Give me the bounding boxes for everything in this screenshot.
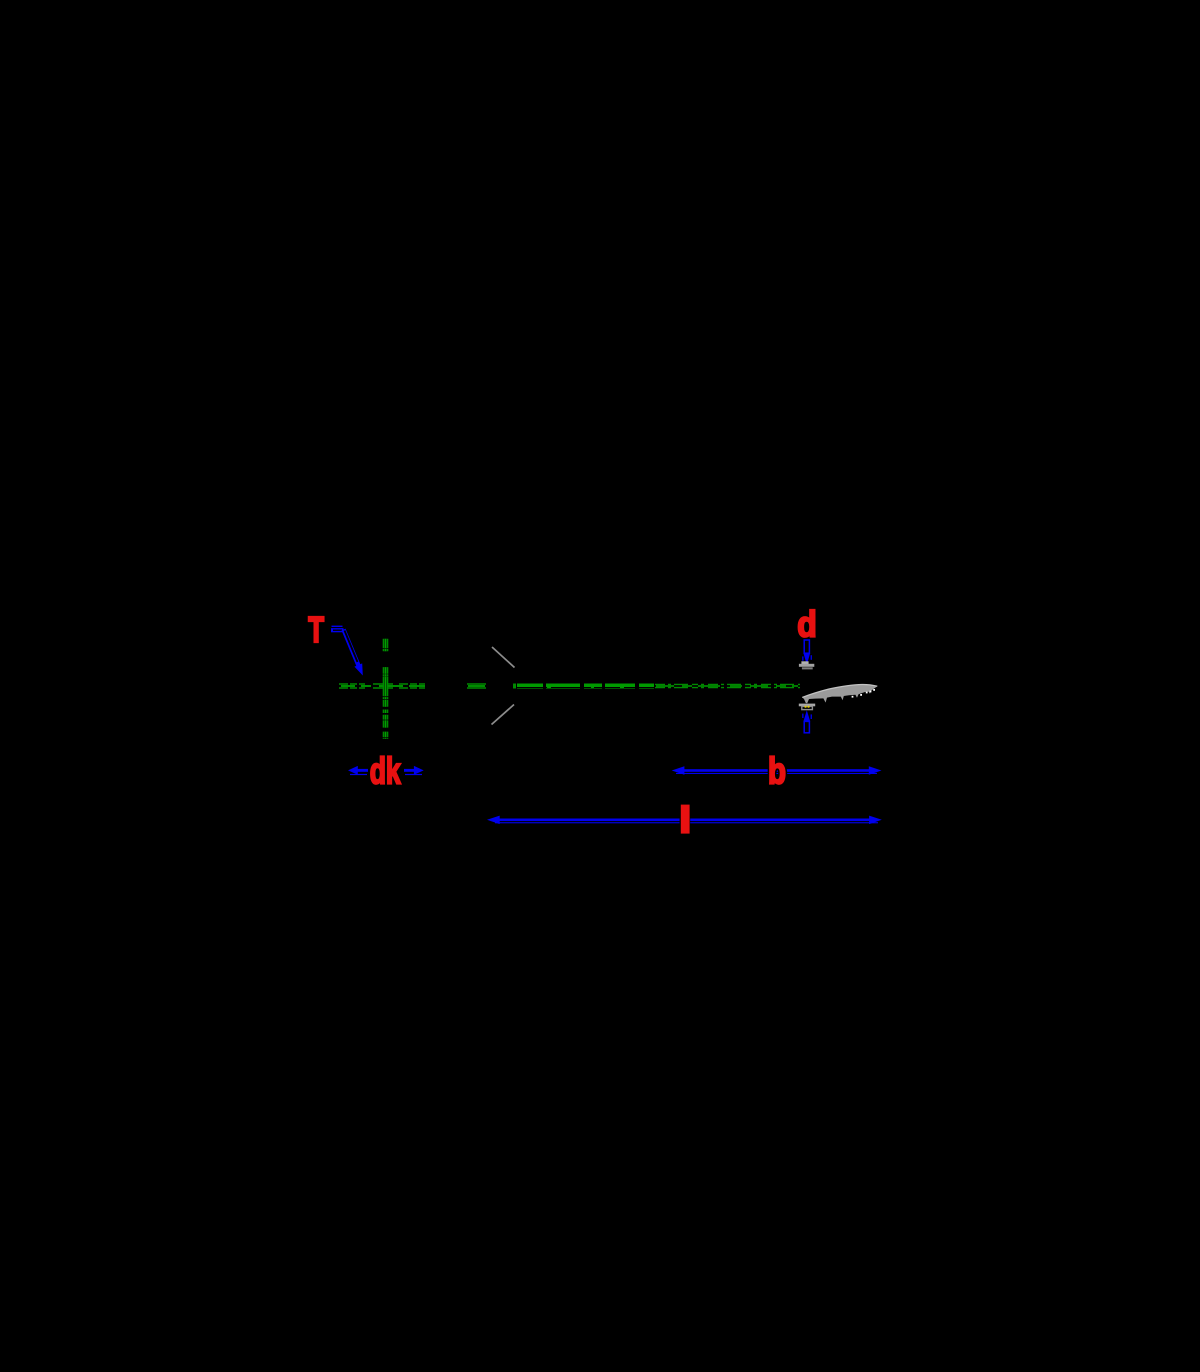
vertical center line (green dash-dot) (383, 639, 389, 739)
d top arrow (blue, pointing down) (802, 640, 812, 665)
shaft bottom edge ticks (gray) (799, 704, 815, 710)
leader arrow for T (blue) (331, 626, 363, 675)
dimension line b (blue) (672, 766, 882, 775)
d bottom arrow (blue, pointing up) (802, 710, 812, 733)
svg-text:b: b (768, 751, 786, 792)
svg-text:d: d (797, 604, 817, 645)
threaded tip blade (gray) (802, 684, 877, 703)
label l (680, 804, 691, 834)
white specks on threads (852, 696, 854, 698)
dk right arrow (blue, pointing right) (404, 766, 424, 775)
countersink cone edges (gray) (492, 647, 515, 725)
horizontal center line (green dash-dot) (339, 686, 800, 688)
svg-text:T: T (308, 609, 324, 650)
dimension line l (blue) (487, 816, 882, 825)
dk left arrow (blue, pointing left) (348, 766, 368, 775)
product image box (300, 386, 900, 986)
shaft top edge ticks (gray) (799, 661, 814, 669)
svg-text:dk: dk (370, 751, 401, 792)
